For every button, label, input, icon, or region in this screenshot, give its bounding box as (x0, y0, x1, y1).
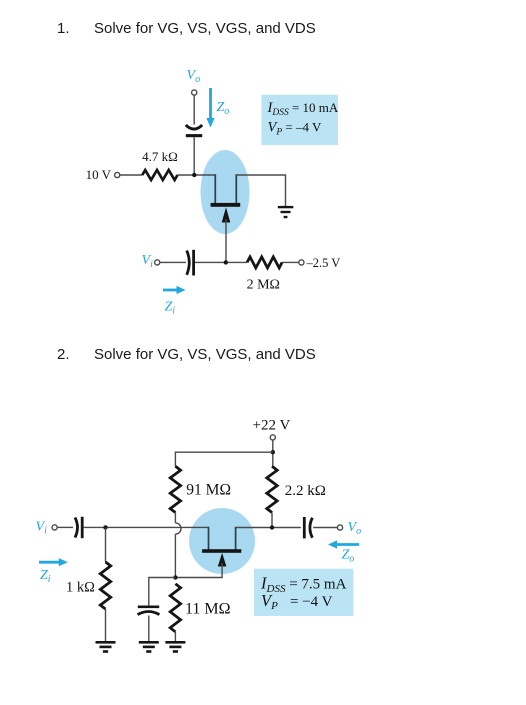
wire 2.2k to drain node (271, 513, 273, 528)
svg-text:Zo: Zo (217, 100, 230, 117)
JFET Q1 channel bar (211, 203, 241, 207)
JFET Q2 right lead (235, 527, 237, 550)
ground under bypass capacitor (139, 641, 159, 653)
svg-text:1.: 1. (57, 20, 70, 37)
wire gate to input node (circuit 1) (225, 219, 227, 262)
resistor R1 4.7k (circuit 1) (142, 170, 177, 180)
svg-text:Solve for VG, VS, VGS, and VDS: Solve for VG, VS, VGS, and VDS (94, 20, 316, 37)
node Vo terminal (circuit 1) (192, 90, 197, 95)
wire R1 to drain lead (178, 174, 216, 176)
svg-text:2.: 2. (57, 346, 70, 363)
wire source to ground (circuit 1) (236, 175, 285, 207)
wire Vi to capacitor C1 (160, 261, 186, 263)
capacitor C2 (output, circuit 1) (186, 125, 202, 137)
node 10V terminal (115, 172, 120, 177)
svg-text:Vo: Vo (187, 68, 201, 85)
wire drain lead to output capacitor (236, 527, 301, 529)
wire C1 to gate node (195, 261, 247, 263)
node supply rail junction dot (271, 450, 275, 454)
capacitor C1 (input, circuit 1) (187, 250, 194, 276)
ground (circuit 1) (278, 206, 294, 218)
wire Vi terminal to capacitor C3 (57, 526, 73, 528)
svg-text:Vi: Vi (142, 253, 154, 270)
wire C3 to gate lead (circuit 2) (84, 526, 209, 528)
svg-text:Vo: Vo (348, 520, 362, 537)
transistor highlight circle (circuit 2) (189, 508, 255, 574)
svg-text:2 MΩ: 2 MΩ (247, 278, 280, 293)
svg-text:Zi: Zi (40, 568, 51, 585)
info box (circuit 1) (261, 95, 338, 145)
wire gate arrow to node A (175, 563, 222, 578)
node Vi terminal (circuit 1) (155, 260, 160, 265)
ground under 1k resistor (96, 641, 116, 653)
svg-text:11 MΩ: 11 MΩ (185, 601, 231, 618)
wire 10V terminal to R1 (120, 174, 143, 176)
svg-text:–2.5 V: –2.5 V (306, 256, 341, 270)
JFET Q2 channel bar (202, 549, 241, 553)
resistor RS 1k (circuit 2) (100, 562, 110, 609)
capacitor C3 (input, circuit 2) (75, 517, 82, 538)
wire supply rail to 91M branch (175, 452, 272, 466)
svg-text:Zi: Zi (165, 300, 176, 317)
resistor RG2 11M (170, 584, 180, 632)
wire C2 to drain node (193, 137, 195, 175)
svg-text:10 V: 10 V (86, 167, 112, 182)
capacitor CS bypass (138, 607, 160, 615)
wire node A to bypass capacitor (149, 578, 176, 606)
wire CS to ground (148, 616, 150, 642)
ground under 11M resistor (165, 641, 185, 653)
svg-text:Vi: Vi (36, 520, 48, 537)
impedance arrow Zi (circuit 1) (163, 286, 186, 294)
node A junction dot (173, 575, 177, 579)
impedance arrow Zi (circuit 2) (39, 558, 68, 566)
JFET Q1 drain lead (214, 174, 216, 203)
title problem 2 (57, 346, 316, 363)
JFET Q1 source lead (235, 174, 237, 203)
wire RS 1k to ground (105, 609, 107, 642)
wire Vo to capacitor C2 (193, 95, 195, 125)
svg-text:Zo: Zo (342, 548, 355, 565)
resistor R2 2M (circuit 1) (247, 257, 282, 268)
JFET Q2 gate arrow (218, 553, 227, 567)
svg-text:2.2 kΩ: 2.2 kΩ (285, 483, 326, 499)
wire R2 to -2.5V terminal (282, 261, 299, 263)
node gate junction dot (circuit 1) (224, 260, 228, 264)
svg-text:4.7 kΩ: 4.7 kΩ (142, 149, 178, 164)
node Vi terminal (circuit 2) (52, 525, 57, 530)
JFET Q1 gate arrow (222, 207, 231, 222)
node input junction dot (circuit 2) (103, 525, 107, 529)
svg-text:1 kΩ: 1 kΩ (66, 580, 95, 596)
node drain junction dot (circuit 1) (192, 173, 196, 177)
node Vo terminal (circuit 2) (337, 525, 342, 530)
capacitor C4 (output, circuit 2) (304, 517, 312, 538)
wire +22V terminal down (272, 440, 274, 466)
JFET Q2 left lead (208, 527, 210, 550)
svg-text:+22 V: +22 V (253, 417, 291, 433)
title problem 1 (57, 20, 316, 37)
svg-text:91 MΩ: 91 MΩ (186, 482, 231, 499)
wire C4 to Vo terminal (313, 527, 337, 529)
impedance arrow Zo (circuit 1) (206, 88, 214, 128)
impedance arrow Zo (circuit 2) (328, 540, 359, 548)
transistor highlight ellipse (circuit 1) (201, 150, 250, 234)
wire input node to RS 1k (105, 527, 107, 562)
node +22V terminal (270, 435, 275, 440)
node -2.5V terminal (299, 260, 304, 265)
wire RG2 to ground (174, 632, 176, 642)
info box (circuit 2) (254, 569, 353, 616)
resistor RG1 91M (170, 466, 180, 512)
wire 91M lower segment with hop (175, 513, 181, 578)
svg-text:Solve for VG, VS, VGS, and VDS: Solve for VG, VS, VGS, and VDS (94, 346, 316, 363)
resistor RD 2.2k (267, 466, 277, 512)
node drain junction dot (circuit 2) (270, 525, 274, 529)
